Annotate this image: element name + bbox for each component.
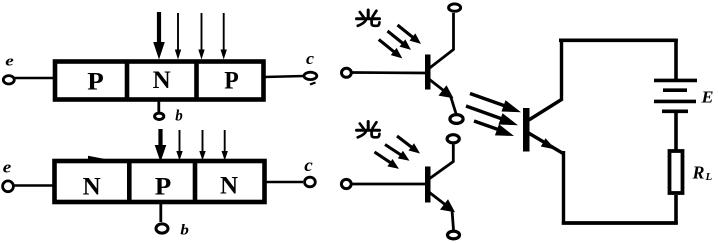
battery E plate 2 short [663,88,687,92]
D1 c terminal tick mark [310,83,316,85]
battery E plate 3 long [654,100,696,104]
Q2 base terminal circle [341,179,351,188]
device D1 junction divider 2 [194,60,199,101]
D1 collector wire [264,76,304,77]
D1 base stub [157,99,160,112]
svg-text:L: L [705,171,713,183]
D1 emitter wire [14,77,53,80]
D2 light arrow thick [155,129,167,162]
svg-text:E: E [700,87,713,106]
device D2 NPN body box [55,161,265,202]
Q1 light label (guang) [357,10,380,26]
Q1 base wire [353,71,428,74]
Q2 base bar [425,167,431,203]
D1 light arrow 2 [175,13,181,60]
Q2 light arrow 1 [397,136,420,154]
Q1 base bar [425,55,431,90]
svg-text:e: e [3,157,12,176]
D2 base stub [159,202,162,222]
svg-text:b: b [180,223,189,239]
Q1 base terminal circle [342,68,352,77]
wire loop top [559,38,678,42]
wire loop bottom [562,221,678,225]
D1 light arrow thick [153,12,165,60]
D2 light arrow 2 [176,130,182,161]
D2 terminal e circle [3,181,14,192]
D2 terminal b circle [156,224,168,233]
Q3 collector lead [528,39,562,121]
svg-text:c: c [306,49,314,68]
D2 current arrow on top edge [88,156,114,163]
D1 light arrow 4 [221,13,227,60]
Q3 light arrow 3 [474,121,514,136]
device D2 junction divider 2 [193,161,198,203]
svg-text:b: b [175,107,183,124]
svg-text:c: c [304,155,313,175]
Q2 light label (guang) [357,122,380,138]
Q1 light arrow 3 [379,40,403,59]
D2 collector wire [265,181,303,184]
svg-text:P: P [155,174,172,201]
svg-text:N: N [83,174,101,201]
battery E plate 4 short [662,110,688,114]
wire right upper [674,39,678,79]
Q2 emitter terminal circle [448,231,460,239]
Q1 collector lead [429,13,454,69]
device D2 junction divider 1 [127,161,132,203]
Q2 light arrow 2 [385,145,410,161]
D2 light arrow 3 [199,130,205,161]
D1 terminal e circle [3,76,14,84]
Q1 light arrow 2 [388,31,412,50]
svg-text:N: N [220,173,238,200]
Q3 emitter lead with arrow [529,133,565,225]
Q2 emitter lead with arrow [430,193,456,231]
Q2 base wire [353,183,428,186]
svg-text:e: e [5,54,14,70]
Q2 light arrow 3 [375,152,400,169]
Q3 light arrow 1 [470,94,521,113]
svg-text:P: P [87,69,104,96]
svg-text:R: R [692,163,705,183]
D1 light arrow 3 [198,13,204,60]
Q1 emitter terminal circle [450,115,463,124]
D1 terminal c circle [304,72,317,79]
wire battery to resistor [674,112,678,150]
svg-text:N: N [153,67,171,94]
resistor RL body [670,151,683,193]
D2 terminal c circle [305,177,316,187]
Q2 collector lead [429,145,453,180]
D1 terminal b circle [155,113,164,119]
Q3 base bar [523,108,530,152]
svg-text:P: P [224,68,239,95]
battery E plate 1 long [654,79,697,83]
D2 light arrow 4 [222,130,228,161]
Q1 light arrow 1 [398,25,422,44]
wire resistor to bottom [674,195,678,224]
device D1 PNP body box [55,62,264,100]
Q1 collector terminal circle [449,4,461,11]
Q3 light arrow 2 [466,106,518,125]
Q1 emitter lead with arrow [430,80,457,114]
device D1 junction divider 1 [125,60,130,101]
Q2 collector terminal circle [447,135,459,143]
D2 emitter wire [14,184,54,187]
